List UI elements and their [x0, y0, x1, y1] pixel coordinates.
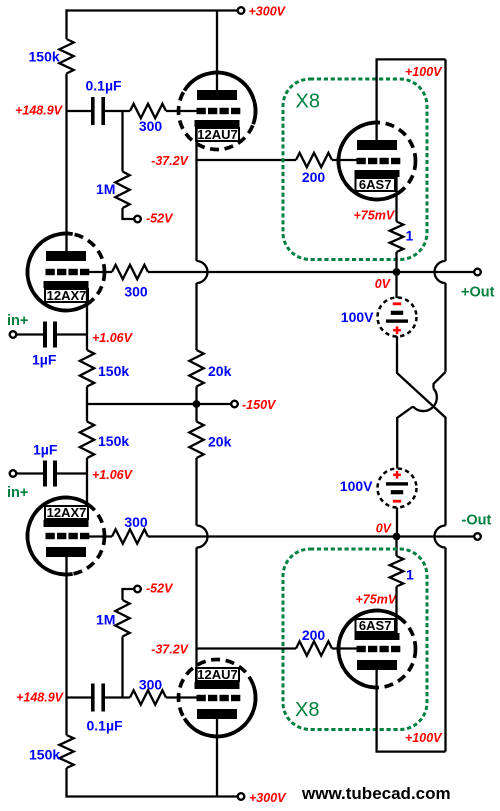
site label www.tubecad.com [301, 784, 451, 803]
tube 6AS7 (bottom) [338, 611, 415, 688]
wire: middle line segment 4 [195, 458, 197, 526]
label in+ (top) [7, 313, 28, 329]
svg-text:www.tubecad.com: www.tubecad.com [301, 784, 451, 803]
voltage label +100V (top) [405, 65, 443, 79]
wire: 12AU7 plate to +300V rail (bottom) [216, 719, 218, 797]
node 0V (top) [393, 268, 401, 276]
svg-text:300: 300 [124, 514, 148, 530]
voltage label -37.2V (top) [151, 154, 189, 168]
resistor 1 (top cathode) [390, 222, 404, 253]
capacitor 0.1uF (top) [91, 97, 105, 125]
voltage label +75mV (bottom) [356, 593, 398, 607]
value label 150k (mid bottom) [98, 433, 129, 449]
resistor 150k (top cathode load) [80, 350, 94, 387]
hop: right rail over -Out wire [435, 526, 446, 548]
voltage label +100V (bottom) [405, 731, 443, 745]
wire: cap to grid-stopper junction (top) [105, 110, 130, 112]
svg-text:200: 200 [302, 627, 326, 643]
terminal in+ (top) [10, 331, 17, 338]
wire: 1uF to +1.06V node (top) [57, 333, 87, 335]
wire: 300 to 12AU7 grid (bottom) [166, 696, 198, 698]
terminal +300V (top) [238, 7, 245, 14]
wire: 1uF to node (bottom) [57, 472, 87, 474]
svg-text:0V: 0V [376, 522, 393, 536]
svg-text:300: 300 [139, 118, 163, 134]
wire: 6AS7 cathode lead (top) [395, 176, 397, 222]
svg-text:1: 1 [406, 567, 414, 583]
hop: crossover wire hop [413, 388, 437, 411]
resistor 200 (bottom 6AS7 grid stopper) [296, 641, 332, 655]
svg-text:-52V: -52V [146, 582, 174, 596]
wire: 12AU7 cathode lead (top) [195, 124, 197, 160]
svg-text:-Out: -Out [462, 513, 492, 529]
wire: +1.06V node to 150k (top) [86, 335, 88, 351]
wire: left rail bottom segment [65, 557, 67, 798]
value label 150k (top left) [29, 49, 60, 65]
wire: 1M drop from junction (top) [121, 111, 123, 172]
value label 1M (bottom) [96, 612, 115, 628]
value label 1M (top) [96, 181, 115, 197]
resistor 300 (top 12AX7 feedback) [112, 265, 148, 279]
wire: in+ to 1uF (bottom) [16, 472, 43, 474]
svg-text:1µF: 1µF [33, 442, 58, 458]
svg-text:12AU7: 12AU7 [197, 127, 237, 142]
label X8 (bottom) [295, 699, 319, 721]
svg-text:in+: in+ [7, 313, 28, 329]
value label 100V (bottom) [340, 478, 373, 494]
terminal -Out [474, 533, 481, 540]
wire: 12AU7 plate to +300V rail (top) [216, 11, 218, 92]
node 0V (bottom) [393, 533, 401, 541]
svg-text:0.1µF: 0.1µF [87, 718, 124, 734]
wire: right rail upper segment [444, 59, 446, 261]
wire: battery to crossover (top left diagonal) [397, 336, 446, 525]
svg-text:in+: in+ [7, 485, 28, 501]
wire: 200 to 6AS7 grid (bottom) [332, 647, 357, 649]
wire: +300V bottom rail [67, 795, 239, 797]
value label 0.1uF (top) [86, 78, 123, 94]
svg-text:200: 200 [302, 169, 326, 185]
wire: 0V node to 1 resistor (bottom) [395, 537, 397, 557]
wire: middle line segment 3 [195, 387, 197, 422]
value label 1 (top) [406, 228, 414, 244]
voltage label +300V (top) [249, 4, 287, 18]
wire: 150k to -150V rail (bottom) [86, 404, 88, 422]
value label 300 (top 12AU7) [139, 118, 163, 134]
value label 150k (mid top) [98, 363, 129, 379]
label X8 (top) [296, 91, 320, 113]
svg-text:+Out: +Out [461, 285, 495, 301]
value label 200 (bottom) [302, 627, 326, 643]
svg-text:-37.2V: -37.2V [151, 643, 189, 657]
hop: middle line over +Out wire [197, 261, 208, 283]
wire: +148.9V node to coupling cap (bottom) [67, 696, 92, 698]
wire: middle line segment 1 (cathode to hop) [195, 160, 197, 261]
resistor 300 (bottom 12AU7 grid stopper) [130, 690, 166, 704]
svg-text:6AS7: 6AS7 [359, 177, 392, 192]
wire: 1 resistor to 0V node (top) [395, 252, 397, 272]
resistor 150k (bottom cathode load) [80, 422, 94, 459]
svg-text:0.1µF: 0.1µF [86, 78, 123, 94]
svg-text:+1.06V: +1.06V [92, 331, 134, 345]
capacitor 1uF (top) [43, 322, 57, 348]
svg-text:+300V: +300V [249, 4, 287, 18]
wire: left rail top segment (plate of upper 12AX7 to 150k) [65, 9, 67, 251]
svg-text:-52V: -52V [146, 212, 174, 226]
wire: 12AX7 cathode lead (bottom) [86, 474, 88, 525]
svg-text:300: 300 [139, 677, 163, 693]
svg-text:+148.9V: +148.9V [15, 104, 64, 118]
wire: 1M to -52V terminal (top) [123, 208, 135, 219]
voltage label +148.9V (top) [15, 104, 64, 118]
wire: crossover hopping diagonal upper piece [433, 372, 445, 388]
svg-text:-150V: -150V [242, 398, 277, 412]
wire: in+ to 1uF (top) [16, 333, 43, 335]
svg-text:1M: 1M [96, 612, 115, 628]
wire: 6AS7 cathode lead (bottom) [395, 587, 397, 634]
value label 1 (bottom) [406, 567, 414, 583]
tube 12AX7 (bottom) [27, 497, 104, 574]
wire: -Out line [148, 535, 475, 537]
svg-text:20k: 20k [208, 363, 232, 379]
wire: middle line segment 2 [195, 283, 197, 350]
svg-text:150k: 150k [29, 747, 60, 763]
value label 20k (bottom) [208, 434, 232, 450]
tube 12AU7 (top) [179, 73, 256, 150]
svg-text:150k: 150k [98, 433, 129, 449]
value label 300 (top 12AX7) [124, 284, 148, 300]
svg-text:+100V: +100V [405, 731, 443, 745]
svg-text:300: 300 [124, 284, 148, 300]
value label 0.1uF (bottom) [87, 718, 124, 734]
wire: 1M drop (bottom) [121, 637, 123, 698]
resistor 20k (top) [189, 350, 203, 387]
svg-text:20k: 20k [208, 434, 232, 450]
battery 100V (bottom) [378, 469, 417, 508]
resistor 150k (bottom left plate load) [59, 735, 73, 768]
svg-text:+75mV: +75mV [354, 209, 396, 223]
wire: cap to grid junction (bottom) [105, 696, 130, 698]
capacitor 1uF (bottom) [43, 461, 57, 487]
wire: cathode node to 200 (top) [197, 159, 297, 161]
voltage label -150V [242, 398, 277, 412]
voltage label +148.9V (bottom) [16, 691, 65, 705]
resistor 1M (bottom) [115, 600, 129, 637]
svg-text:+75mV: +75mV [356, 593, 398, 607]
svg-text:100V: 100V [341, 309, 374, 325]
voltage label +75mV (top) [354, 209, 396, 223]
svg-text:+100V: +100V [405, 65, 443, 79]
wire: 12AU7 cathode lead (bottom) [195, 649, 197, 686]
wire: cathode node to 200 (bottom) [197, 647, 297, 649]
tube 12AU7 (bottom) [179, 660, 256, 737]
value label 100V (top) [341, 309, 374, 325]
terminal -150V [231, 401, 238, 408]
value label 300 (bottom 12AX7) [124, 514, 148, 530]
wire: junction to -150V terminal [197, 403, 232, 405]
svg-text:150k: 150k [98, 363, 129, 379]
svg-text:6AS7: 6AS7 [359, 618, 392, 633]
wire: 6AS7 plate to +100V (bottom) [377, 670, 446, 752]
svg-text:0V: 0V [375, 277, 392, 291]
wire: 1M to -52V terminal (bottom) [123, 589, 135, 600]
resistor 200 (top 6AS7 grid stopper) [296, 153, 332, 167]
hop: middle line over -Out wire [197, 526, 208, 548]
svg-text:1µF: 1µF [32, 352, 57, 368]
terminal -52V (bottom) [134, 586, 141, 593]
voltage label +1.06V (top) [92, 331, 134, 345]
value label 1uF (top) [32, 352, 57, 368]
battery 100V (top) [378, 298, 417, 337]
resistor 150k (top left plate load) [59, 39, 73, 74]
svg-text:12AX7: 12AX7 [47, 288, 87, 303]
svg-text:X8: X8 [296, 91, 320, 113]
node -150V junction [193, 400, 201, 408]
svg-text:+148.9V: +148.9V [16, 691, 65, 705]
resistor 1M (top) [115, 172, 129, 209]
svg-text:+300V: +300V [249, 791, 287, 805]
svg-text:12AX7: 12AX7 [47, 505, 87, 520]
wire: 150k to +1.06V node (bottom) [86, 458, 88, 474]
wire: 12AX7 cathode lead (top) [86, 284, 88, 335]
svg-text:150k: 150k [29, 49, 60, 65]
wire: 150k to -150V rail (top) [87, 387, 193, 405]
value label 300 (bottom 12AU7) [139, 677, 163, 693]
terminal in+ (bottom) [10, 470, 17, 477]
wire: 6AS7 plate to +100V (top) [377, 59, 446, 140]
terminal +Out [474, 269, 481, 276]
X8 box (top) [283, 79, 427, 260]
label -Out [462, 513, 492, 529]
value label 20k (top) [208, 363, 232, 379]
resistor 300 (bottom 12AX7 feedback) [112, 529, 148, 543]
resistor 300 (top 12AU7 grid stopper) [130, 104, 166, 118]
voltage label +300V (bottom) [249, 791, 287, 805]
wire: right rail to crossover [444, 283, 446, 372]
terminal -52V (top) [134, 216, 141, 223]
svg-text:-37.2V: -37.2V [151, 154, 189, 168]
wire: battery to 0V node (bottom) [396, 508, 398, 537]
wire: 300 to 12AU7 grid (top) [166, 110, 198, 112]
voltage label +1.06V (bottom) [92, 468, 134, 482]
tube 6AS7 (top) [338, 122, 415, 199]
label +Out [461, 285, 495, 301]
svg-text:1: 1 [406, 228, 414, 244]
voltage label 0V (top) [375, 277, 392, 291]
value label 200 (top) [302, 169, 326, 185]
terminal +300V (bottom) [238, 793, 245, 800]
svg-text:1M: 1M [96, 181, 115, 197]
wire: 200 to 6AS7 grid (top) [332, 159, 357, 161]
voltage label -52V (bottom) [146, 582, 174, 596]
wire: crossover hopping diagonal lower piece [397, 407, 413, 469]
wire: +Out line [148, 271, 475, 273]
voltage label 0V (bottom) [376, 522, 393, 536]
hop: right rail over +Out wire [435, 261, 446, 283]
label in+ (bottom) [7, 485, 28, 501]
wire: +300V top rail [67, 9, 239, 11]
wire: +148.9V node to coupling cap (top) [67, 110, 92, 112]
value label 1uF (bottom) [33, 442, 58, 458]
wire: 12AX7 grid to 300 (bottom) [88, 535, 112, 537]
wire: right rail lower segment [444, 548, 446, 752]
svg-text:100V: 100V [340, 478, 373, 494]
wire: 0V node to battery (top) [395, 272, 397, 298]
voltage label -37.2V (bottom) [151, 643, 189, 657]
value label 150k (bottom left) [29, 747, 60, 763]
tube 12AX7 (top) [27, 234, 104, 311]
capacitor 0.1uF (bottom) [91, 684, 105, 712]
voltage label -52V (top) [146, 212, 174, 226]
svg-text:+1.06V: +1.06V [92, 468, 134, 482]
svg-text:12AU7: 12AU7 [197, 667, 237, 682]
wire: 12AX7 grid to 300 (top) [88, 271, 112, 273]
svg-text:X8: X8 [295, 699, 319, 721]
wire: middle line segment 5 [195, 548, 197, 649]
resistor 1 (bottom cathode) [390, 556, 404, 587]
X8 box (bottom) [283, 549, 427, 730]
resistor 20k (bottom) [189, 422, 203, 459]
